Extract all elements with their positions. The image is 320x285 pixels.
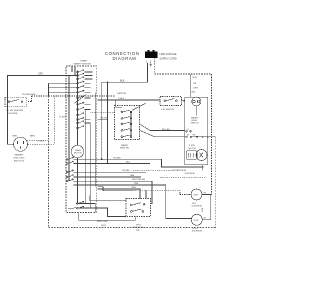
wire valve1 feed dashed [133,191,191,195]
wire GRY from left to timer [8,76,67,145]
svg-text:SW: SW [136,230,139,232]
svg-text:AGITATE-SPIN: AGITATE-SPIN [172,169,186,172]
node BLU junction [107,163,109,165]
bus wire PNK [74,184,166,186]
wire staircase to speed box [89,195,126,200]
pressure switch PS [192,97,201,106]
contact arrowheads [72,70,84,208]
label LINE VOLTAGE SUPPLY CORD [160,53,177,61]
labels motor terminals [187,129,197,137]
timer box (dashed) [66,66,96,213]
motor terminals row1 [186,131,188,133]
svg-text:LINE VOLTAGE: LINE VOLTAGE [160,53,177,56]
svg-text:SELECTOR: SELECTOR [133,227,144,229]
svg-text:GRN: GRN [12,136,17,138]
boundary dashed left vertical [48,96,50,228]
svg-text:DIAGRAM: DIAGRAM [113,56,137,61]
wire GRN/YEL dashed [49,95,115,97]
label hot valve [192,203,203,208]
wire BK-WH from timer to right [98,119,108,121]
wire lid switch lead (dashed) [27,96,49,102]
svg-text:MOTOR: MOTOR [189,148,197,150]
svg-text:BK: BK [194,83,197,85]
water temp internal vertical [130,111,132,137]
svg-text:YEL/BK: YEL/BK [113,157,121,159]
speed selector box (dashed) [126,199,151,217]
wire V-BLK branch into water temp [116,100,122,107]
svg-text:WATER: WATER [121,144,129,147]
svg-text:TIMER: TIMER [75,150,82,152]
node water temp top [132,109,133,110]
wire staircase to valve1 [98,187,134,191]
timer motor TM [71,145,83,157]
svg-text:NOR: NOR [193,77,198,79]
timer bottom contacts [76,202,107,213]
svg-text:LO: LO [187,129,190,131]
svg-text:[T. BU]: [T. BU] [59,116,66,118]
label speed selector [133,224,144,232]
svg-text:WASHER: WASHER [15,153,24,156]
svg-text:1: 1 [146,60,148,64]
lid switch contacts [8,101,10,103]
wire valves right loop [202,195,210,220]
node BK-WH junction [107,119,108,120]
svg-text:PNK: PNK [134,183,139,185]
hot water valve solenoid L1 [191,189,202,200]
svg-text:SWITCH: SWITCH [191,123,199,125]
svg-text:SOLENOID: SOLENOID [185,173,196,175]
lid switch SW2 right (dashed box) [160,97,182,106]
svg-text:BK: BK [204,218,207,220]
timer contacts mid group [77,81,91,93]
wire water temp top diagonal [133,103,146,110]
wire agitator dashed left [133,169,172,171]
label AGITATOR [172,169,195,175]
wire motor bottom down [202,165,204,171]
timer internal bus verticals [69,71,95,208]
node YEL/BK junction [101,159,103,161]
drive motor M [196,150,207,161]
labels NOR BK WHT ADJ [192,77,199,94]
svg-text:YEL/BK: YEL/BK [122,170,130,172]
title CONNECTION DIAGRAM [105,51,139,61]
label 2SPD MOTOR [189,145,197,150]
wires entering timer left [49,83,78,96]
svg-text:SUPPLY CORD: SUPPLY CORD [160,58,177,61]
svg-text:TIMER: TIMER [80,61,87,63]
svg-text:WASH PUSH SW: WASH PUSH SW [74,63,92,66]
bus wire ORG [98,189,141,199]
svg-text:GRY: GRY [38,72,44,75]
svg-text:BLK: BLK [120,79,125,82]
wire lid switch to pressure box [182,100,185,102]
node dot pin1 wire [147,68,148,69]
svg-text:WHT/YEL/BK: WHT/YEL/BK [132,179,146,181]
motor terminals row2 [186,136,188,138]
svg-text:WHT: WHT [101,225,107,227]
node lid-pressure junction [183,100,184,101]
speed selector contacts [130,203,145,213]
label water temp sw [120,144,129,150]
svg-text:BLK-BU: BLK-BU [162,129,170,131]
wire timer motor top [77,128,79,145]
svg-text:WH: WH [193,135,197,137]
plug P1 (power cord) [14,137,28,151]
wire motor row2 across [192,136,216,138]
svg-text:IN-SPIN): IN-SPIN) [9,113,18,115]
wire branch down from BLK junction [107,82,109,163]
label cold valve [192,228,203,233]
cold water valve solenoid L2 [191,214,202,225]
svg-text:HOT: HOT [192,203,197,205]
svg-text:WH/YL-BK: WH/YL-BK [97,221,108,223]
lid switch SW1 (dashed box) [5,97,27,107]
pin numbers 1 2 3 [146,60,156,64]
svg-text:MOTOR: MOTOR [74,153,82,155]
bus wire YEL/BK [74,159,203,167]
node dots motor row [202,136,203,137]
timer contacts group 3 [77,96,91,110]
water temp contacts [121,110,132,137]
svg-text:TEMP SW: TEMP SW [120,148,129,150]
svg-text:YEL/WH-RED: YEL/WH-RED [22,94,36,96]
wire dashed into water temp [90,111,114,113]
wire valve2 feed from PNK [166,185,191,219]
boundary dashed right vertical [215,137,217,228]
svg-text:2: 2 [150,60,152,64]
wires timer to water temp [98,99,161,101]
pressure / motor box right [185,97,208,164]
wire supply pin3 to right side (dashed) [155,58,212,194]
wire branch into speed box [145,191,147,199]
wire dashed vertical to lid area [53,96,55,145]
terminal block TB1 (line voltage supply cord) [145,50,158,58]
wire staircase bottom [68,208,126,217]
svg-text:WTR: WTR [194,220,199,222]
svg-text:SOLENOID: SOLENOID [192,231,203,233]
bus wire BLU [74,163,151,165]
svg-text:LINE CORD: LINE CORD [14,157,25,159]
svg-text:GRN/YEL: GRN/YEL [117,93,127,95]
svg-text:BLK: BLK [202,207,204,211]
bus wire TAN [74,176,142,178]
node junction BLK wire [107,82,109,84]
wire timer bottom to WH/YL-BK [79,213,135,221]
bus wire YEL/BK 2 [74,171,147,173]
svg-text:ADJ: ADJ [192,91,196,94]
motor winding marks [188,153,203,158]
svg-text:AND PLUG: AND PLUG [14,160,25,163]
svg-text:SOLENOID: SOLENOID [192,206,203,208]
water temp switch box (dashed) [115,106,140,140]
svg-text:COLD: COLD [192,228,198,230]
timer switch arm diagonal [75,94,87,103]
boundary dashed bottom [49,227,216,229]
svg-text:V-BLK: V-BLK [118,98,125,100]
label power cord plug [14,153,25,162]
svg-text:BLU: BLU [126,162,131,164]
label water level switch [191,117,199,125]
svg-text:BK: BK [187,135,190,137]
dashed wire right mid [160,177,206,179]
svg-text:BRN: BRN [30,135,35,137]
timer contacts lower group [66,157,73,182]
wire plug lead Y-BU (dashed) [28,144,55,146]
timer top pigtails [72,66,75,76]
wire valve1 right to BLK supply [202,194,212,196]
label lid switch [6,110,24,115]
ground symbol below pin 2 [150,63,152,66]
label timer [74,61,92,66]
wire pressure switch down [195,106,197,116]
wire plug lead BRN (dashed) [27,140,49,142]
bus wire WHT/YEL/BK [74,181,153,204]
timer contacts top group [77,70,93,80]
svg-text:WTR: WTR [194,195,199,197]
wire GRY into box [66,75,78,77]
svg-text:TAN: TAN [130,174,135,177]
svg-text:LID SWITCH: LID SWITCH [162,109,175,111]
svg-text:(Y-BU): (Y-BU) [38,140,45,142]
svg-text:ORG: ORG [131,187,136,189]
wire into pressure switch from top [189,74,191,97]
svg-text:LID SW (SHOWN: LID SW (SHOWN [6,110,24,112]
timer contacts group 4 [77,113,91,129]
wires water temp right diagonals [140,124,185,137]
node motor bottom junction [202,166,203,167]
svg-text:BK-WH: BK-WH [101,118,109,120]
svg-text:BK: BK [204,192,207,194]
svg-text:WHT: WHT [194,88,199,90]
wire BLK from pin1 down-left [102,63,148,159]
svg-text:WTR: WTR [136,224,141,226]
